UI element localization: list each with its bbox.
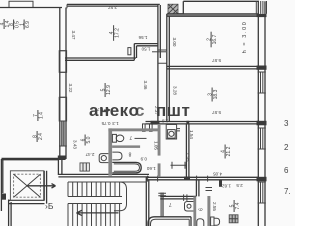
svg-text:5.57: 5.57 bbox=[212, 58, 221, 63]
svg-text:1.50: 1.50 bbox=[141, 47, 150, 52]
svg-text:1.62: 1.62 bbox=[222, 184, 231, 189]
svg-text:16.7: 16.7 bbox=[212, 34, 218, 44]
svg-text:7: 7 bbox=[169, 201, 172, 207]
svg-text:2.5: 2.5 bbox=[236, 183, 243, 188]
svg-text:6.9: 6.9 bbox=[25, 21, 31, 28]
svg-text:5.57: 5.57 bbox=[212, 110, 221, 115]
svg-text:2.4: 2.4 bbox=[38, 133, 44, 140]
svg-text:17.2: 17.2 bbox=[114, 28, 120, 38]
svg-text:1.0: 1.0 bbox=[161, 119, 168, 124]
svg-text:12.9: 12.9 bbox=[106, 85, 112, 95]
svg-text:4.05: 4.05 bbox=[213, 172, 222, 177]
svg-text:›Б: ›Б bbox=[45, 201, 54, 211]
svg-text:1.95: 1.95 bbox=[186, 153, 191, 162]
svg-text:5.0: 5.0 bbox=[86, 136, 92, 143]
svg-text:7: 7 bbox=[129, 134, 132, 140]
svg-text:пшт: пшт bbox=[156, 101, 190, 120]
svg-text:3.00: 3.00 bbox=[172, 38, 177, 47]
svg-text:1.4: 1.4 bbox=[39, 112, 45, 119]
svg-text:2.47: 2.47 bbox=[85, 152, 94, 157]
svg-text:1.05: 1.05 bbox=[154, 141, 159, 150]
svg-text:8: 8 bbox=[128, 151, 131, 157]
svg-text:3: 3 bbox=[284, 119, 289, 128]
svg-text:2.55: 2.55 bbox=[212, 202, 217, 211]
svg-text:1.54: 1.54 bbox=[189, 130, 194, 139]
svg-text:2.37: 2.37 bbox=[154, 106, 159, 115]
svg-text:3.57: 3.57 bbox=[108, 5, 117, 10]
svg-text:1.3: 1.3 bbox=[112, 121, 119, 126]
svg-text:3.28: 3.28 bbox=[173, 86, 178, 95]
svg-text:с: с bbox=[135, 101, 144, 120]
svg-text:3.47: 3.47 bbox=[71, 31, 76, 40]
svg-text:0.7: 0.7 bbox=[96, 107, 103, 112]
svg-text:21.2: 21.2 bbox=[226, 146, 232, 156]
svg-text:18.3: 18.3 bbox=[213, 89, 219, 99]
svg-text:h = 3.00: h = 3.00 bbox=[242, 21, 248, 54]
svg-text:2: 2 bbox=[284, 143, 289, 152]
svg-text:7.4: 7.4 bbox=[235, 202, 241, 209]
svg-text:6: 6 bbox=[284, 166, 289, 175]
svg-text:0.75: 0.75 bbox=[101, 121, 110, 126]
svg-text:анеко: анеко bbox=[89, 101, 139, 120]
svg-text:6: 6 bbox=[199, 208, 205, 211]
svg-text:3.43: 3.43 bbox=[72, 140, 77, 149]
svg-text:0.9: 0.9 bbox=[140, 157, 147, 162]
svg-text:3.46: 3.46 bbox=[143, 81, 148, 90]
svg-text:1.56: 1.56 bbox=[138, 35, 147, 40]
svg-text:3.22: 3.22 bbox=[68, 84, 73, 93]
svg-text:7.: 7. bbox=[284, 187, 291, 196]
svg-text:1.60: 1.60 bbox=[146, 166, 155, 171]
